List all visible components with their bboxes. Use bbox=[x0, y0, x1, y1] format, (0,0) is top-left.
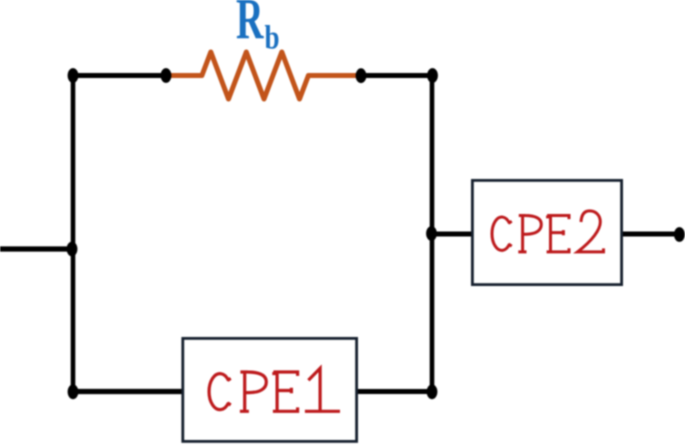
node bottom-left corner junction bbox=[68, 384, 79, 399]
wire top-right segment bbox=[361, 73, 433, 78]
node resistor right terminal bbox=[356, 68, 367, 83]
label CPE2 bbox=[492, 211, 604, 252]
node top-left corner junction bbox=[68, 68, 79, 83]
node right branch junction at CPE2 tap bbox=[426, 226, 437, 241]
label Rb resistor value bbox=[236, 0, 264, 51]
wire left vertical branch bbox=[71, 73, 76, 394]
wire bottom-left segment bbox=[73, 389, 182, 394]
node resistor left terminal bbox=[161, 68, 172, 83]
node right output terminal bbox=[674, 227, 685, 242]
wire top-left segment bbox=[73, 73, 166, 78]
CPE1 box bbox=[183, 338, 357, 441]
wire input lead left bbox=[0, 246, 72, 251]
svg-text:R: R bbox=[236, 0, 264, 51]
svg-text:b: b bbox=[265, 19, 280, 57]
node top-right corner junction bbox=[427, 68, 438, 83]
label CPE1 bbox=[209, 368, 340, 411]
wire CPE2 right lead bbox=[622, 232, 679, 237]
node left input junction bbox=[67, 242, 78, 257]
CPE2 box bbox=[472, 180, 621, 284]
wire right vertical branch bbox=[430, 73, 435, 394]
node bottom-right corner junction bbox=[427, 384, 438, 399]
wire CPE2 left lead bbox=[431, 232, 472, 237]
wire bottom-right segment bbox=[357, 389, 432, 394]
resistor R1 zigzag body bbox=[168, 52, 358, 99]
label Rb subscript b bbox=[265, 19, 280, 57]
